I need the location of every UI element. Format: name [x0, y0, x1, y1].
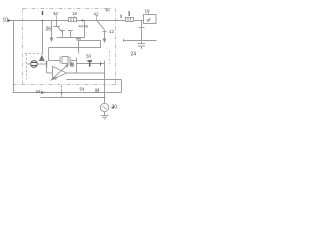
- wire: y47 left from box: [49, 47, 79, 49]
- svg-text:10: 10: [3, 18, 9, 24]
- resistor R1 on main wire (box style): [69, 18, 77, 22]
- input arrowhead: [8, 19, 12, 22]
- junction cross: [100, 62, 102, 66]
- wire: right output run: [124, 40, 157, 42]
- node junction dot at x104 rail: [104, 97, 106, 99]
- AC source V1: [100, 103, 108, 111]
- node junction dot at x42: [42, 20, 44, 22]
- svg-text:54: 54: [80, 87, 86, 92]
- wire: amp output: [67, 72, 105, 74]
- resistor R2 on main wire (box style): [126, 18, 134, 22]
- ground: [101, 115, 109, 117]
- node junction dot at x56: [56, 20, 58, 22]
- capacitor C4: [138, 43, 145, 45]
- node junction dot at x82: [82, 20, 84, 22]
- svg-text:48: 48: [105, 8, 110, 13]
- variable arrow through amplifier: [51, 66, 67, 81]
- wire: second vertical drop with arrowhead: [51, 21, 53, 38]
- node arrow triangle above mixer: [39, 55, 44, 61]
- svg-text:18: 18: [145, 9, 151, 14]
- svg-text:24: 24: [131, 52, 137, 58]
- tick label at x42: [42, 11, 43, 15]
- capacitor Ca stub: [60, 30, 65, 32]
- wire: diagonal drop from main wire with arrow: [97, 21, 105, 30]
- wire: left vertical drop: [13, 21, 15, 93]
- block component (78,40)-(100,47): [79, 41, 101, 48]
- crystal Y1: plates and body: [49, 60, 61, 62]
- vertical from main wire at right: [141, 21, 143, 44]
- label 15 above R2: [129, 11, 130, 16]
- svg-text:46: 46: [84, 24, 89, 29]
- svg-text:40: 40: [53, 11, 59, 16]
- block component U2 top-right: [144, 15, 157, 24]
- inner dashed box (oscillator enclosure): [25, 51, 110, 80]
- wire: vertical with arrow into oscillator: [42, 21, 44, 55]
- tick near 121: [121, 15, 122, 19]
- capacitor Cb stub: [68, 30, 73, 32]
- capacitor C3 at box top: [76, 38, 81, 40]
- component mark on feedback wire: [88, 60, 93, 62]
- op-amp U1 triangle: [53, 67, 67, 80]
- svg-text:32: 32: [53, 76, 58, 81]
- wire: mixer to amp input: [46, 61, 48, 68]
- transistor Q1 below main wire: [56, 21, 58, 27]
- mixer circle M1: [31, 61, 38, 68]
- wire: lower run: [67, 79, 105, 81]
- svg-text:50: 50: [86, 54, 92, 59]
- wire: main top horizontal: [10, 20, 69, 22]
- wire: right vertical down to source: [104, 61, 106, 104]
- tick marks on rail near x96: [96, 89, 97, 93]
- wire: vertical from main wire to rail: [84, 21, 86, 38]
- svg-text:36: 36: [46, 27, 52, 33]
- reference numerals (dark small marks): [3, 8, 152, 111]
- wire: dashed link to rail: [61, 86, 63, 93]
- wire: bottom rail 2: [41, 97, 105, 99]
- svg-text:16: 16: [72, 11, 78, 16]
- wire: rail under caps: [57, 37, 85, 39]
- small mark at crystal output junction: [70, 63, 71, 67]
- svg-text:12: 12: [109, 29, 115, 34]
- wire: corner to bottom rail: [105, 79, 122, 81]
- svg-text:34: 34: [36, 89, 42, 94]
- wire: feedback right vertical: [76, 58, 78, 74]
- wire: upper feedback run to right: [77, 63, 105, 65]
- dashed enclosure border (dash-dot outer box): [13, 9, 122, 85]
- node junction dot at x61 rail: [61, 92, 63, 94]
- wire: bottom rail 1: [13, 92, 122, 94]
